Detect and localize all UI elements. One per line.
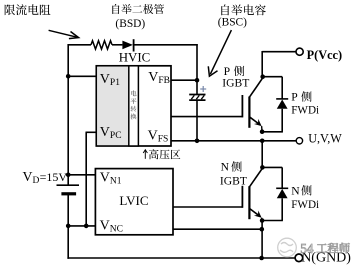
LVIC block outline xyxy=(95,169,173,235)
capacitor BSC plus sign xyxy=(200,86,206,92)
junction: output node at right rail xyxy=(260,139,265,144)
capacitor BSC top plate xyxy=(189,94,205,96)
junction: bootstrap rail at V_FB xyxy=(195,78,200,83)
junction: left rail to V_P1 xyxy=(66,74,71,79)
svg-text:P(Vcc): P(Vcc) xyxy=(307,48,343,62)
wire: battery to bottom-left corner xyxy=(67,194,69,259)
wire: V_NC to LVIC xyxy=(68,225,95,227)
transistor Q2 N-side IGBT gate bar xyxy=(241,186,243,208)
wire: V_P1 to HVIC xyxy=(68,75,96,77)
label: 自举二极管 (bootstrap diode) xyxy=(112,4,164,14)
label: ↑高压区 (high-voltage region) xyxy=(149,149,180,159)
wire: bottom ground rail xyxy=(67,257,295,259)
junction: N emitter node (FWDi link) xyxy=(260,218,265,223)
transistor Q2 emitter arrowhead xyxy=(254,211,262,218)
wire: V_PC left stub xyxy=(86,131,97,133)
HVIC input-side shaded region xyxy=(97,67,128,145)
battery VD negative plate xyxy=(61,192,76,195)
svg-text:VD: VD xyxy=(23,169,40,186)
wire: diode to bootstrap rail corner xyxy=(134,44,198,46)
arrow glyph of 高压区 label xyxy=(143,150,147,159)
diode N-side FWDi xyxy=(277,189,288,198)
svg-text:=15V: =15V xyxy=(40,170,68,184)
transistor Q2 body bar xyxy=(248,186,250,219)
capacitor BSC bottom plate xyxy=(189,99,205,101)
wire: N emitter to bottom rail xyxy=(261,221,263,259)
svg-text:N: N xyxy=(221,160,230,173)
wire: V_FS / output node rail xyxy=(171,140,297,142)
wire: capacitor to V_FS rail xyxy=(196,100,198,141)
label: P 侧 (FWDi) xyxy=(301,91,311,101)
wire: P FWDi anode to emitter node xyxy=(281,109,283,132)
battery VD positive plate xyxy=(57,184,80,186)
svg-text:P: P xyxy=(291,91,297,104)
wire: LVIC emitter-sense to N emitter node xyxy=(173,228,262,230)
diode N-side FWDi cathode bar xyxy=(276,187,288,189)
svg-text:U,V,W: U,V,W xyxy=(308,132,342,146)
label: 限流电阻 (current-limiting resistor) xyxy=(5,4,51,15)
wire: P collector to FWDi xyxy=(262,76,282,78)
wire: V_FB to bootstrap rail xyxy=(171,79,197,81)
terminal: P(Vcc) xyxy=(296,48,303,55)
label: P 侧 (IGBT) xyxy=(234,66,244,76)
diode P-side FWDi xyxy=(277,100,288,109)
svg-text:LVIC: LVIC xyxy=(119,193,148,208)
transistor Q1 emitter lead xyxy=(249,117,259,125)
label: N 侧 (IGBT) xyxy=(231,161,241,171)
label: N 侧 (FWDi) xyxy=(301,185,311,195)
svg-text:(BSC): (BSC) xyxy=(218,16,247,28)
svg-text:IGBT: IGBT xyxy=(220,174,247,187)
label: 自举电容 (bootstrap capacitor) xyxy=(221,4,265,15)
wire: HVIC gate output to P-side IGBT gate xyxy=(171,116,243,118)
svg-text:(BSD): (BSD) xyxy=(115,18,145,30)
transistor Q1 collector lead xyxy=(249,77,263,97)
annotation arrow to bootstrap capacitor xyxy=(208,30,231,76)
wire: N FWDi anode to emitter node xyxy=(281,198,283,220)
junction: P collector node xyxy=(260,74,265,79)
transistor Q2 collector lead xyxy=(249,168,263,187)
svg-text:FWDi: FWDi xyxy=(291,104,319,116)
wire: left rail top corner to resistor xyxy=(68,44,91,46)
svg-text:FWDi: FWDi xyxy=(291,199,319,211)
junction: left rail at V_NC wire xyxy=(66,224,71,229)
capacitor BSC hatched electrode xyxy=(191,95,204,99)
wire: LVIC gate output to N-side IGBT gate xyxy=(173,206,243,208)
wire: P(Vcc) feed corner xyxy=(262,51,296,53)
wire: resistor to diode xyxy=(112,44,122,46)
transistor Q1 body bar xyxy=(248,97,250,128)
watermark logo circle xyxy=(278,238,297,257)
wire: V_N1 to LVIC xyxy=(68,174,95,176)
HVIC block outline xyxy=(96,66,171,146)
resistor R (限流电阻) xyxy=(91,41,112,49)
transistor Q2 emitter lead xyxy=(249,208,259,216)
terminal: U,V,W output xyxy=(296,138,302,144)
svg-text:54: 54 xyxy=(300,241,314,256)
watermark text 工程师 xyxy=(317,243,350,253)
junction: P emitter node xyxy=(260,129,265,134)
svg-text:N: N xyxy=(291,184,300,197)
junction: N emitter node (LVIC return) xyxy=(260,227,265,232)
annotation arrow to resistor xyxy=(49,30,79,38)
junction: N emitter rail at ground rail xyxy=(259,256,264,261)
junction: capacitor bottom at output rail xyxy=(195,139,200,144)
junction: V_PC drop joins V_NC wire xyxy=(84,224,89,229)
junction: N collector node xyxy=(260,165,265,170)
transistor Q1 P-side IGBT gate bar xyxy=(241,95,243,117)
diode P-side FWDi cathode bar xyxy=(276,98,288,100)
HVIC strip vertical text 电平转换 xyxy=(131,90,137,119)
svg-text:HVIC: HVIC xyxy=(119,50,151,64)
HVIC level-shift strip xyxy=(129,66,139,146)
transistor Q1 emitter arrowhead xyxy=(254,119,262,126)
diode BSD (bootstrap diode) xyxy=(122,41,132,50)
svg-text:IGBT: IGBT xyxy=(222,77,249,90)
terminal: N(GND) xyxy=(295,254,303,262)
wire: N collector to FWDi xyxy=(262,166,282,168)
junction: left rail to V_N1 xyxy=(66,173,71,178)
wire: right rail between output and N collector xyxy=(261,141,263,168)
